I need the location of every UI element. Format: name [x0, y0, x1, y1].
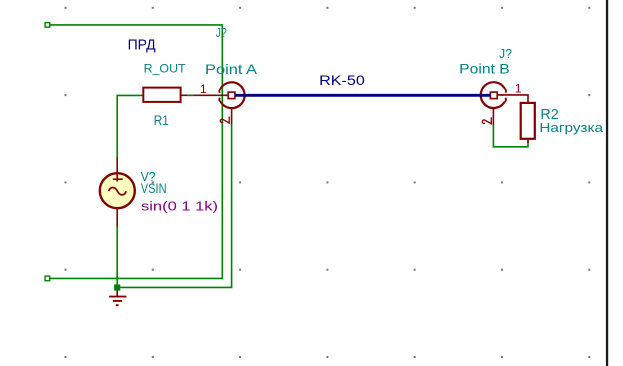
svg-text:J?: J? — [499, 46, 512, 61]
svg-text:Point A: Point A — [205, 62, 258, 77]
svg-text:sin(0 1 1k): sin(0 1 1k) — [141, 199, 218, 213]
svg-text:VSIN: VSIN — [141, 180, 167, 196]
svg-text:J?: J? — [216, 26, 227, 40]
svg-text:R_OUT: R_OUT — [144, 61, 186, 75]
svg-text:Нагрузка: Нагрузка — [539, 120, 604, 135]
svg-text:ПРД: ПРД — [128, 37, 156, 53]
svg-text:1: 1 — [200, 82, 207, 96]
svg-text:Point B: Point B — [459, 62, 510, 77]
svg-text:1: 1 — [515, 82, 522, 96]
svg-text:RK-50: RK-50 — [319, 72, 365, 88]
svg-text:R1: R1 — [154, 113, 169, 128]
